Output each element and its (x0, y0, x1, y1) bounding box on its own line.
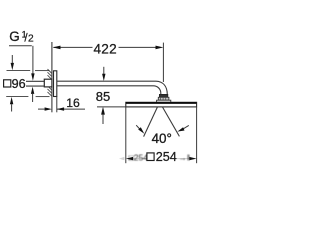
svg-text:96: 96 (12, 77, 26, 91)
dim 422 right extension line (162, 43, 164, 82)
G 1/2 leader shaft (32, 46, 34, 74)
wall line (51, 42, 53, 112)
supply pipe (26, 80, 44, 82)
shower head plate (126, 102, 197, 107)
connector knurled ring (158, 97, 169, 100)
svg-text:85: 85 (96, 89, 110, 104)
svg-text:40°: 40° (152, 131, 172, 146)
spray angle right arrow (184, 125, 189, 128)
wall hatching lower (48, 86, 52, 97)
dim 254 left extension line (125, 107, 127, 163)
svg-text:254: 254 (156, 150, 177, 164)
spray angle right line (162, 107, 179, 136)
dim 254 right extension line (196, 107, 198, 163)
svg-text:16: 16 (66, 96, 80, 110)
escutcheon front extension line (56, 97, 58, 113)
dim 254 left arrow (126, 157, 133, 160)
svg-text:422: 422 (94, 41, 117, 56)
svg-text:→‖: →‖ (179, 153, 191, 162)
spray angle left arrow (136, 125, 140, 130)
escutcheon (54, 71, 57, 97)
dim 96 bottom extension line (6, 96, 28, 98)
dim 16 left arrow (45, 107, 52, 110)
dim 96 bottom arrow (10, 97, 13, 104)
connector nut (159, 94, 167, 97)
dim 96 top extension line (7, 70, 31, 72)
dim 85 bottom arrow (101, 107, 105, 115)
connector flange (157, 100, 171, 102)
svg-text:2: 2 (28, 34, 34, 45)
dim 96 top arrow (11, 55, 13, 65)
dim 254 square symbol (147, 153, 154, 161)
arm bend (156, 81, 167, 94)
dim 96 square symbol (4, 80, 11, 87)
union block (44, 79, 52, 87)
dim 16 dimension line (38, 108, 45, 110)
dim 422 dimension line (54, 46, 158, 48)
dim 85 extension line (97, 106, 126, 108)
dim 85 top arrow (103, 67, 105, 75)
dim 254 ghost dimension line (133, 158, 147, 160)
dim 16 right arrow (57, 107, 64, 110)
dim 422 left arrow (53, 46, 61, 50)
dim 254 ghost left arrow (119, 157, 124, 160)
svg-text:G: G (9, 29, 19, 44)
G 1/2 leader arrow down (31, 73, 34, 80)
G 1/2 leader underline (9, 45, 32, 47)
wall hatching upper (48, 69, 52, 80)
G 1/2 lower arrow up (31, 87, 34, 94)
spray angle left line (144, 107, 158, 137)
dim 422 right arrow (156, 46, 164, 50)
G 1/2 lower shaft (32, 94, 34, 102)
dim 254 right arrow (189, 157, 196, 160)
shower arm (57, 80, 156, 82)
